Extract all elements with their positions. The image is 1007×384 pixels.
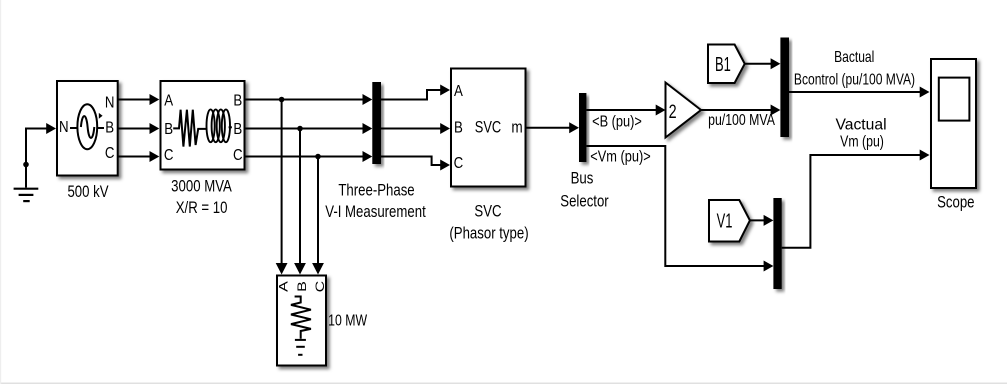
RL icon	[173, 110, 207, 147]
svg-text:SVC: SVC	[474, 202, 501, 221]
Three-Phase V-I Measurement block	[372, 82, 381, 164]
svg-text:B1: B1	[715, 53, 731, 76]
wire phase C	[119, 156, 156, 158]
svg-text:m: m	[511, 118, 522, 137]
Scope block	[931, 59, 976, 188]
wire to SVC A	[381, 90, 446, 100]
svg-text:N: N	[105, 94, 115, 111]
svg-text:10 MW: 10 MW	[328, 312, 367, 330]
load resistor icon	[291, 297, 311, 339]
wire ground to source input	[26, 129, 52, 188]
junction dot B	[297, 126, 303, 132]
svg-text:Bus: Bus	[571, 169, 594, 188]
svg-text:3000 MVA: 3000 MVA	[171, 177, 232, 196]
Bus Selector block	[579, 93, 586, 162]
svg-text:2: 2	[669, 100, 677, 123]
svg-text:B: B	[454, 119, 463, 136]
svg-text:X/R = 10: X/R = 10	[176, 199, 228, 218]
svg-text:Vm (pu): Vm (pu)	[840, 133, 884, 151]
tap wire C down to load	[317, 157, 319, 267]
svg-text:pu/100 MVA: pu/100 MVA	[708, 112, 775, 130]
wire phase A	[119, 99, 156, 101]
svg-text:Scope: Scope	[937, 193, 974, 212]
svg-text:<Vm (pu)>: <Vm (pu)>	[590, 148, 650, 166]
source block 500 kV	[57, 81, 118, 176]
junction dot C	[315, 154, 321, 160]
svg-text:A: A	[277, 280, 290, 291]
svg-text:C: C	[105, 145, 115, 162]
svg-text:Selector: Selector	[560, 192, 608, 211]
svg-text:B: B	[105, 119, 114, 136]
svg-text:Bcontrol (pu/100 MVA): Bcontrol (pu/100 MVA)	[794, 71, 915, 89]
wire to SVC B	[381, 128, 446, 130]
svg-text:B: B	[164, 121, 173, 138]
svg-text:<B (pu)>: <B (pu)>	[592, 113, 642, 131]
tap wire A down to load	[281, 100, 283, 267]
svg-text:B: B	[233, 92, 242, 109]
svg-text:V1: V1	[717, 210, 733, 233]
wire Vm(pu) to mux2	[586, 146, 769, 266]
wire B to measurement	[246, 128, 369, 130]
gain block 2	[666, 83, 702, 138]
AC source symbol	[70, 104, 104, 149]
scope screen	[939, 78, 970, 121]
svg-text:SVC: SVC	[475, 119, 502, 137]
wire mux2 to scope input 2	[782, 155, 925, 248]
load block 10 MW	[277, 276, 326, 366]
svg-text:B: B	[233, 121, 242, 138]
wire to SVC C	[381, 157, 446, 166]
impedance block 3000 MVA	[161, 81, 245, 170]
svg-text:(Phasor type): (Phasor type)	[449, 224, 528, 243]
junction dot on ground wire	[23, 162, 29, 168]
svg-text:V-I Measurement: V-I Measurement	[325, 203, 426, 222]
mux (bottom)	[773, 198, 781, 289]
svg-text:B: B	[295, 281, 308, 292]
load ground marks	[295, 340, 306, 355]
svg-text:C: C	[313, 281, 326, 293]
wire phase B	[119, 128, 156, 130]
wire B(pu) to gain	[586, 109, 661, 111]
SVC block	[451, 69, 526, 187]
junction dot A	[279, 97, 285, 103]
svg-text:C: C	[454, 155, 464, 172]
svg-text:C: C	[164, 147, 174, 164]
From tag B1	[708, 45, 745, 84]
wire m to Bus Selector	[526, 127, 575, 129]
svg-text:500 kV: 500 kV	[67, 183, 108, 202]
wire V1 to mux2	[750, 219, 769, 221]
wire mux to scope input 1	[789, 91, 925, 93]
mux (top)	[780, 38, 789, 138]
ground symbol	[14, 189, 39, 201]
svg-text:Bactual: Bactual	[834, 48, 874, 66]
From tag V1	[709, 200, 750, 242]
svg-text:A: A	[454, 83, 463, 100]
svg-text:C: C	[233, 147, 243, 164]
svg-text:N: N	[59, 119, 69, 136]
wire A to measurement	[246, 99, 369, 101]
wire C to measurement	[246, 156, 369, 158]
wire B1 to mux	[745, 63, 776, 65]
svg-text:Vactual: Vactual	[835, 116, 886, 133]
svg-text:Three-Phase: Three-Phase	[338, 181, 414, 200]
tap wire B down to load	[299, 129, 301, 267]
svg-text:A: A	[164, 92, 173, 109]
wire gain to mux	[701, 109, 776, 111]
